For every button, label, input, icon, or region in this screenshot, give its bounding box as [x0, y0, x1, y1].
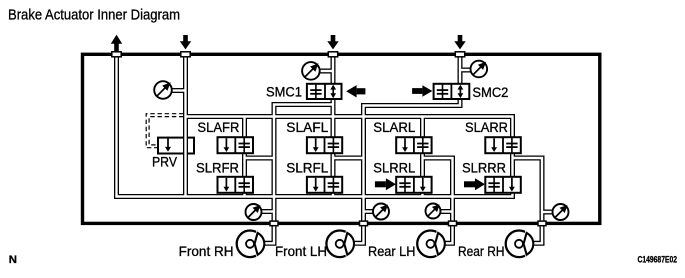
wire SLAFR to SLRFR (core)	[243, 153, 245, 177]
wire SMC1 output down to SLAFL (core)	[332, 99, 334, 138]
wire master supply drop (port 2 through PRV) (core)	[184, 56, 186, 197]
wire SMC1 output down to SLAFL	[331, 99, 336, 138]
wire SLRRL to return line	[420, 192, 425, 196]
valve SLARL	[396, 137, 431, 153]
svg-text:SLARL: SLARL	[373, 120, 415, 135]
valve SLAFL	[307, 137, 342, 153]
pressure sensor Front RH	[246, 204, 262, 220]
wire sensor stub Rear RH (core)	[542, 211, 554, 213]
valve SMC2	[434, 84, 470, 99]
port master 4	[455, 52, 464, 57]
pressure sensor SMC1	[302, 62, 320, 80]
wire SMC2 backup to Front LH circuit (core)	[354, 99, 460, 244]
wire reservoir return line (port 1 down, bottom manifold, riser to SLRRR)	[117, 56, 513, 197]
wire reservoir return line (port 1 down, bottom manifold, riser to SLRRR) (core)	[117, 56, 513, 197]
wire sensor stub SMC1 (core)	[320, 70, 333, 72]
svg-text:C149687E02: C149687E02	[638, 255, 678, 265]
wire SLARL to SLRRL (core)	[421, 153, 423, 177]
wire sensor stub Rear RH	[542, 210, 554, 215]
wheel cylinder Front RH	[237, 231, 265, 258]
pressure sensor master	[154, 81, 172, 99]
wire SLRRL to return line (core)	[421, 192, 423, 196]
pressure sensor Rear RH	[553, 204, 569, 220]
wire Front RH tap	[245, 156, 275, 161]
PRV pilot line (dashed)	[146, 114, 183, 148]
valve SLRFL	[307, 177, 342, 193]
svg-text:Brake Actuator Inner Diagram: Brake Actuator Inner Diagram	[8, 7, 180, 24]
wire main supply manifold (core)	[186, 117, 513, 138]
svg-text:SLAFL: SLAFL	[286, 120, 328, 135]
svg-text:SLRFL: SLRFL	[286, 160, 328, 175]
flow arrow reservoir up	[111, 35, 122, 52]
actuator housing box	[83, 54, 600, 223]
wire manifold to SLARL (core)	[421, 117, 423, 138]
wire SMC1 backup to Front RH circuit	[264, 105, 333, 244]
wire SLAFL to SLRFL	[331, 153, 336, 177]
svg-text:SLRRR: SLRRR	[462, 160, 506, 175]
wire Rear RH tap and drop to port	[513, 158, 543, 243]
wire SMC1 backup to Front RH circuit (core)	[264, 105, 333, 244]
port reservoir	[112, 52, 121, 57]
port Rear LH out	[449, 221, 457, 226]
port Front LH out	[360, 221, 368, 226]
wire sensor stub Front LH	[364, 209, 375, 214]
svg-text:SMC2: SMC2	[472, 85, 508, 100]
wire sensor stub Front RH (core)	[260, 210, 274, 212]
wheel cylinder Front LH	[326, 231, 354, 258]
wire sensor stub master (core)	[172, 89, 186, 91]
port Rear RH out	[538, 221, 546, 226]
flow arrow master in 4	[454, 35, 465, 49]
valve SLRRL	[396, 177, 431, 193]
port master 2	[181, 52, 190, 57]
proportioning valve PRV	[158, 138, 194, 154]
valve SLARR	[485, 137, 521, 153]
wire Front LH tap	[333, 156, 364, 161]
wire Front LH tap (core)	[333, 157, 364, 159]
wire port 4 to SMC2 (core)	[459, 56, 461, 84]
port master 3	[328, 52, 337, 57]
wheel cylinder Rear LH	[417, 231, 445, 258]
flow arrow into SMC1	[346, 85, 365, 97]
flow arrow master in 3	[327, 35, 338, 49]
wire sensor stub Rear LH (core)	[440, 210, 453, 212]
wire SLRFL to return line	[331, 192, 336, 196]
wire sensor stub master	[172, 88, 186, 93]
svg-text:SLRRL: SLRRL	[373, 160, 415, 175]
wire SLRFR to return line (core)	[243, 192, 245, 196]
wire Rear RH tap and drop to port (core)	[513, 158, 543, 243]
wire manifold to SLAFR (core)	[243, 117, 245, 138]
wire sensor stub Rear LH	[440, 209, 453, 214]
svg-text:SMC1: SMC1	[266, 84, 302, 99]
valve SMC1	[307, 84, 342, 99]
wire SLAFL to SLRFL (core)	[332, 153, 334, 177]
wire SLARL to SLRRL	[420, 153, 425, 177]
wire manifold to SLARL	[420, 117, 425, 138]
wire port 3 to SMC1	[331, 56, 336, 84]
svg-text:Rear RH: Rear RH	[458, 243, 505, 259]
svg-text:Rear LH: Rear LH	[368, 243, 416, 259]
wire Rear LH tap and drop to port	[423, 158, 453, 243]
svg-text:Front LH: Front LH	[275, 243, 327, 259]
pressure sensor Front LH	[373, 204, 389, 220]
wire sensor stub Front RH	[260, 209, 274, 214]
wire sensor stub SMC1	[320, 69, 333, 74]
wire Rear LH tap and drop to port (core)	[423, 158, 453, 243]
wire sensor stub SMC2 (core)	[460, 69, 471, 71]
wire manifold to SLAFR	[242, 117, 247, 138]
wire Front RH tap (core)	[245, 157, 275, 159]
svg-text:Front RH: Front RH	[179, 243, 234, 259]
flow arrow into SMC2	[412, 85, 432, 97]
wire SLARR to SLRRR (core)	[511, 153, 513, 177]
pressure sensor SMC2	[471, 61, 488, 78]
wire SLARR to SLRRR	[510, 153, 515, 177]
wire sensor stub SMC2	[460, 68, 471, 73]
wire SLAFR to SLRFR	[242, 153, 247, 177]
wire port 4 to SMC2	[458, 56, 463, 84]
valve SLRRR	[485, 177, 521, 193]
port Front RH out	[270, 221, 278, 226]
svg-text:SLRFR: SLRFR	[196, 160, 239, 175]
wire port 3 to SMC1 (core)	[332, 56, 334, 84]
wire sensor stub Front LH (core)	[364, 210, 375, 212]
flow arrow into SLRRL	[375, 178, 396, 190]
valve SLAFR	[218, 137, 254, 153]
wheel cylinder Rear RH	[506, 231, 534, 258]
wire master supply drop (port 2 through PRV)	[183, 56, 188, 197]
wire SMC2 backup to Front LH circuit	[354, 99, 460, 244]
wire main supply manifold	[186, 117, 513, 138]
svg-text:N: N	[9, 254, 17, 266]
flow arrow master in 2	[180, 35, 191, 49]
svg-text:SLAFR: SLAFR	[197, 120, 239, 135]
svg-text:SLARR: SLARR	[465, 120, 508, 135]
pressure sensor Rear LH	[426, 204, 441, 219]
flow arrow into SLRRR	[464, 178, 485, 190]
wire SLRFL to return line (core)	[332, 192, 334, 196]
svg-text:PRV: PRV	[152, 155, 177, 170]
valve SLRFR	[218, 177, 254, 193]
wire SLRFR to return line	[242, 192, 247, 196]
